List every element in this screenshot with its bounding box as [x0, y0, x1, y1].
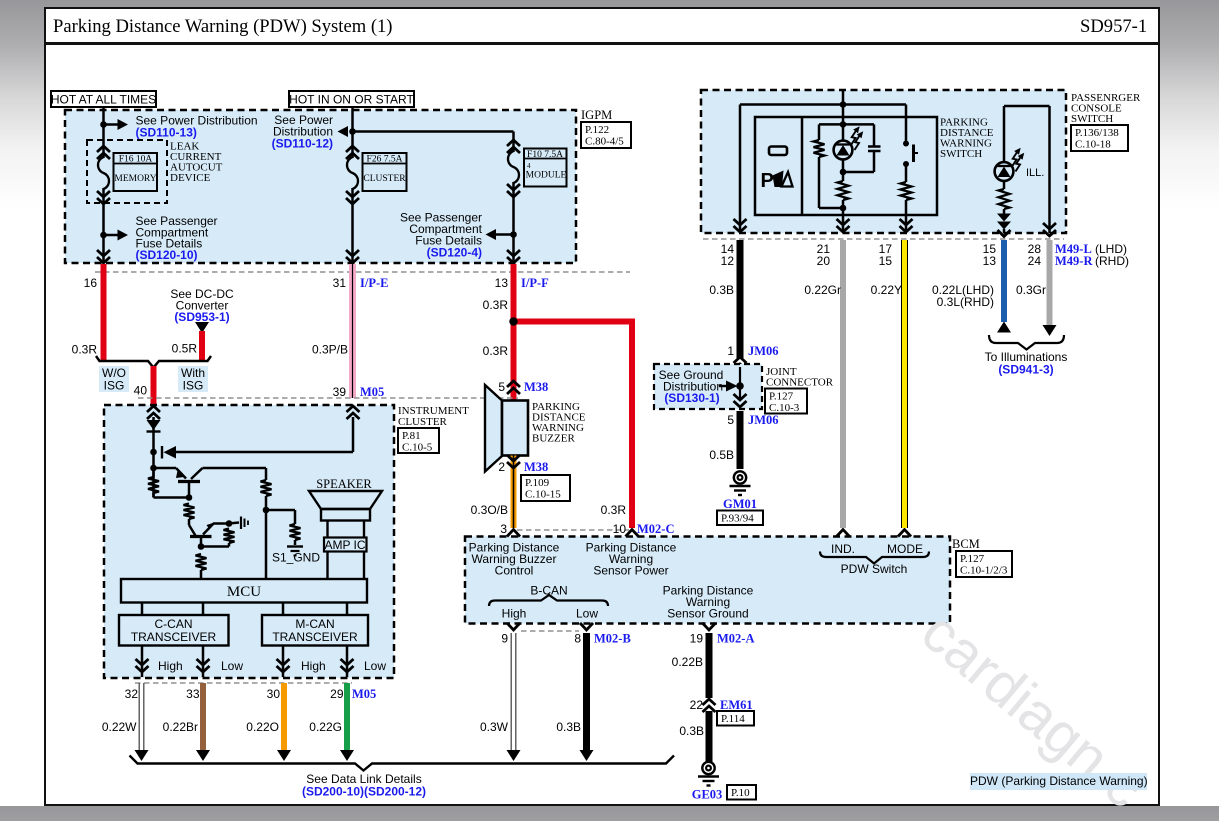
- M-CAN transceiver box: [262, 615, 368, 646]
- b-can arrowheads: [507, 750, 521, 761]
- fuse F10 7.5A MODULE: [512, 132, 515, 153]
- svg-text:(SD120-4): (SD120-4): [427, 246, 482, 260]
- svg-text:P.109: P.109: [525, 477, 550, 489]
- svg-text:MODULE: MODULE: [526, 171, 567, 181]
- svg-text:DEVICE: DEVICE: [170, 172, 211, 184]
- svg-text:GM01: GM01: [723, 497, 757, 511]
- svg-text:(SD953-1): (SD953-1): [174, 310, 229, 324]
- wire 0.22L to illuminations: [1001, 240, 1007, 322]
- node C: [186, 494, 193, 501]
- svg-text:0.22Y: 0.22Y: [871, 283, 902, 297]
- wires MCU to transceivers: [141, 603, 144, 616]
- svg-text:High: High: [301, 659, 326, 673]
- illumination branch: [1004, 105, 1050, 108]
- exit chevrons pin 28/24: [1043, 223, 1056, 229]
- svg-text:0.22O: 0.22O: [246, 720, 279, 734]
- resistor R-led bottom: [838, 181, 849, 200]
- wire 0.22W: [138, 683, 140, 750]
- svg-text:22: 22: [690, 698, 704, 712]
- wire 0.3W: [510, 633, 512, 750]
- resistor R3: [224, 529, 235, 543]
- node - passenger compartment fuse tap: [100, 232, 107, 239]
- svg-text:BCM: BCM: [952, 537, 980, 551]
- svg-text:M38: M38: [524, 460, 548, 474]
- wire 0.22Y from pin 17/15: [901, 240, 908, 528]
- svg-text:M02-C: M02-C: [637, 522, 675, 536]
- svg-text:19: 19: [690, 632, 704, 646]
- ground GM01: [734, 471, 746, 483]
- svg-text:SPEAKER: SPEAKER: [316, 477, 372, 491]
- svg-text:(SD110-13): (SD110-13): [136, 126, 197, 140]
- wire 0.22G: [344, 683, 350, 750]
- parking distance warning buzzer: [485, 385, 502, 472]
- node B: [150, 465, 157, 472]
- node - junction to I/P-F feed: [349, 128, 356, 135]
- svg-text:M05: M05: [352, 687, 376, 701]
- connector row line under IGPM: [95, 271, 630, 273]
- connector row M05 bottom: [135, 682, 352, 684]
- svg-text:(SD120-10): (SD120-10): [136, 248, 198, 262]
- wire - horizontal link to module fuse: [353, 130, 514, 133]
- svg-text:GE03: GE03: [692, 788, 723, 802]
- svg-text:32: 32: [125, 687, 139, 701]
- svg-text:IGPM: IGPM: [581, 108, 612, 122]
- svg-text:9: 9: [501, 632, 508, 646]
- svg-text:Control: Control: [495, 564, 534, 578]
- svg-text:High: High: [158, 659, 183, 673]
- LED D-ind with arrows: [834, 141, 853, 160]
- svg-text:5: 5: [727, 413, 734, 427]
- svg-text:P.114: P.114: [721, 713, 745, 725]
- node E: [198, 543, 205, 550]
- BCM entry chevrons: [507, 530, 520, 537]
- svg-text:M05: M05: [360, 385, 384, 399]
- svg-text:16: 16: [84, 276, 98, 290]
- svg-text:31: 31: [333, 276, 347, 290]
- wire S1 vertical: [265, 468, 268, 480]
- svg-text:Low: Low: [364, 659, 386, 673]
- svg-text:Low: Low: [221, 659, 243, 673]
- switch feed stub: [842, 90, 845, 105]
- svg-text:0.3P/B: 0.3P/B: [312, 343, 348, 357]
- AMP IC: [324, 538, 367, 552]
- svg-text:C.80-4/5: C.80-4/5: [585, 136, 624, 148]
- svg-text:0.3O/B: 0.3O/B: [471, 503, 508, 517]
- wire 0.3R to M02-C: [629, 319, 635, 529]
- svg-text:2: 2: [498, 460, 505, 474]
- svg-text:JM06: JM06: [748, 344, 779, 358]
- svg-text:C.10-18: C.10-18: [1075, 139, 1111, 151]
- svg-text:P.122: P.122: [585, 124, 609, 136]
- svg-text:JM06: JM06: [748, 413, 779, 427]
- CAN output wires: [141, 646, 144, 678]
- svg-text:C.10-1/2/3: C.10-1/2/3: [960, 565, 1008, 577]
- svg-text:P.93/94: P.93/94: [721, 513, 754, 525]
- wire 0.22O: [281, 683, 287, 750]
- BCM exit chevrons: [507, 623, 520, 630]
- wire 14/12 left leg: [739, 105, 742, 231]
- svg-text:13: 13: [495, 276, 509, 290]
- svg-text:0.3B: 0.3B: [679, 724, 704, 738]
- exit chevrons pin 17/15: [900, 219, 913, 225]
- svg-text:M02-A: M02-A: [717, 632, 755, 646]
- svg-text:0.3W: 0.3W: [480, 720, 509, 734]
- svg-text:I/P-F: I/P-F: [521, 276, 549, 290]
- svg-text:(SD110-12): (SD110-12): [272, 137, 333, 151]
- svg-text:CLUSTER: CLUSTER: [363, 174, 406, 184]
- svg-text:EM61: EM61: [720, 698, 753, 712]
- svg-text:0.3Gr: 0.3Gr: [1016, 283, 1046, 297]
- svg-text:SWITCH: SWITCH: [1071, 113, 1113, 125]
- svg-text:M38: M38: [524, 380, 548, 394]
- resistor R4: [196, 554, 207, 570]
- svg-text:0.3L(RHD): 0.3L(RHD): [937, 295, 994, 309]
- instrument cluster box: [104, 405, 394, 678]
- svg-text:10: 10: [613, 522, 627, 536]
- connector row M38/M02: [517, 529, 629, 531]
- svg-text:0.5R: 0.5R: [172, 342, 198, 356]
- svg-text:0.3R: 0.3R: [483, 298, 509, 312]
- data link arrowheads: [135, 750, 149, 761]
- svg-text:0.3R: 0.3R: [72, 343, 98, 357]
- svg-text:MODE: MODE: [887, 542, 923, 556]
- svg-text:Sensor Ground: Sensor Ground: [667, 607, 748, 621]
- svg-text:0.3R: 0.3R: [483, 344, 509, 358]
- double diode symbol: [997, 214, 1011, 222]
- svg-text:4: 4: [527, 162, 531, 170]
- node A: [150, 449, 157, 456]
- node led bottom: [840, 169, 847, 176]
- svg-text:P.127: P.127: [769, 391, 794, 403]
- wire 0.3Gr from illuminations: [1047, 240, 1053, 325]
- exit chevron pin 15/13: [998, 230, 1011, 237]
- W/O ISG label: [99, 366, 129, 392]
- transistor Q1: [154, 467, 177, 470]
- buzzer feed chevrons pin 5 M38: [507, 381, 520, 387]
- diode D2 pointing left: [161, 446, 163, 459]
- svg-text:AMP IC: AMP IC: [324, 538, 365, 552]
- cluster internal wiring: [152, 417, 155, 498]
- svg-text:P.136/138: P.136/138: [1075, 127, 1119, 139]
- svg-text:HOT IN ON OR START: HOT IN ON OR START: [289, 93, 414, 107]
- resistor R-ill: [999, 189, 1010, 209]
- node - see power distribution tap: [100, 121, 107, 128]
- svg-text:P.81: P.81: [402, 430, 421, 442]
- svg-text:C.10-5: C.10-5: [402, 442, 433, 454]
- svg-text:ILL.: ILL.: [1026, 167, 1044, 179]
- ground distribution box: [654, 364, 762, 409]
- EM61 connector pin 22: [703, 699, 716, 705]
- big power-distribution box (IGPM): [65, 110, 576, 263]
- svg-text:CLUSTER: CLUSTER: [398, 416, 448, 428]
- C-CAN transceiver box: [119, 615, 229, 646]
- node S1: [263, 507, 270, 514]
- svg-text:F10 7.5A: F10 7.5A: [527, 150, 563, 160]
- resistor R6: [290, 524, 301, 540]
- wire collector to S1 node: [203, 467, 267, 470]
- node D: [226, 520, 233, 527]
- svg-text:40: 40: [134, 384, 148, 398]
- wire 0.5B: [737, 411, 744, 469]
- ground GE03: [702, 762, 714, 774]
- svg-text:P.127: P.127: [960, 553, 985, 565]
- wire 0.3O/B: [511, 456, 517, 529]
- watermark: [909, 598, 1157, 821]
- BCM box: [465, 537, 950, 624]
- wire 0.3P/B from pin 31: [349, 264, 356, 398]
- svg-text:(RHD): (RHD): [1095, 254, 1129, 268]
- switch top bus wire: [740, 103, 906, 106]
- joint connector JM06: [739, 367, 741, 399]
- svg-text:0.22Br: 0.22Br: [163, 720, 198, 734]
- svg-text:C.10-15: C.10-15: [525, 489, 561, 501]
- wire below fuse F16: [102, 188, 105, 263]
- svg-text:S1_GND: S1_GND: [272, 551, 320, 565]
- ground - emitter: [240, 517, 242, 530]
- PDW footer label: [970, 773, 1147, 790]
- node - passenger compartment fuse tap right: [510, 231, 517, 238]
- leak current autocut device dashed box: [87, 140, 167, 203]
- pin 39 entry chevrons: [347, 406, 360, 412]
- svg-text:(SD200-10)(SD200-12): (SD200-10)(SD200-12): [302, 785, 426, 799]
- wire from pin 39 down-left: [352, 417, 355, 452]
- svg-text:PDW Switch: PDW Switch: [841, 562, 908, 576]
- resistor R5: [261, 480, 272, 496]
- wire 0.3B from pin 14/12: [737, 240, 744, 358]
- svg-text:Sensor Power: Sensor Power: [593, 564, 668, 578]
- svg-text:0.22W: 0.22W: [102, 720, 137, 734]
- svg-text:F26 7.5A: F26 7.5A: [367, 155, 403, 165]
- svg-text:20: 20: [817, 254, 831, 268]
- svg-text:SWITCH: SWITCH: [940, 148, 982, 160]
- svg-text:0.3B: 0.3B: [709, 283, 734, 297]
- pin 13 exit chevrons: [507, 250, 520, 256]
- pin 16 exit chevrons: [97, 250, 110, 256]
- svg-text:5: 5: [498, 380, 505, 394]
- HOT AT ALL TIMES label: [51, 91, 156, 107]
- svg-text:F16 10A: F16 10A: [119, 155, 153, 165]
- svg-text:I/P-E: I/P-E: [360, 276, 388, 290]
- svg-text:C-CAN: C-CAN: [155, 617, 193, 631]
- HOT IN ON OR START label: [289, 91, 414, 107]
- wire ILL right leg: [1048, 106, 1051, 233]
- svg-text:ISG: ISG: [183, 379, 204, 393]
- svg-text:0.22Gr: 0.22Gr: [804, 283, 841, 297]
- PDW button icon: [769, 147, 787, 156]
- resistor R-led left: [814, 140, 825, 157]
- svg-text:0.22G: 0.22G: [309, 720, 342, 734]
- svg-text:(SD941-3): (SD941-3): [998, 363, 1053, 377]
- wire 0.22B sensor ground: [706, 633, 713, 698]
- svg-text:(SD130-1): (SD130-1): [664, 391, 719, 405]
- wire 0.3R from pin 13: [511, 264, 517, 400]
- svg-text:M49-R: M49-R: [1055, 254, 1093, 268]
- pin 31 exit chevrons: [346, 250, 359, 256]
- exit chevrons pin 14/12: [734, 219, 747, 225]
- svg-text:3: 3: [500, 522, 507, 536]
- svg-text:HOT AT ALL TIMES: HOT AT ALL TIMES: [51, 93, 156, 107]
- resistor R-sw: [901, 182, 912, 200]
- wire below fuse F10: [512, 182, 515, 263]
- resistor R1 left: [152, 468, 155, 477]
- connector row M49: [703, 238, 1064, 240]
- svg-text:0.5B: 0.5B: [709, 448, 734, 462]
- svg-text:29: 29: [330, 687, 344, 701]
- svg-text:CONNECTOR: CONNECTOR: [766, 377, 834, 389]
- branch to S1_GND resistor: [266, 509, 295, 512]
- svg-text:12: 12: [721, 254, 735, 268]
- fuse F16 10A MEMORY: [97, 146, 110, 152]
- ground - S1_GND: [287, 545, 303, 547]
- MCU box: [121, 579, 367, 603]
- diode D1: [147, 420, 161, 430]
- svg-text:33: 33: [186, 687, 200, 701]
- wire from HOT IN ON OR START down: [351, 107, 354, 158]
- wire 0.5R with ISG: [199, 331, 205, 361]
- merged red wire to pin 40: [151, 366, 157, 405]
- svg-text:MEMORY: MEMORY: [114, 174, 156, 184]
- svg-text:8: 8: [574, 632, 581, 646]
- svg-text:P: P: [761, 170, 774, 192]
- svg-text:24: 24: [1028, 254, 1042, 268]
- svg-text:0.22B: 0.22B: [672, 655, 703, 669]
- svg-text:TRANSCEIVER: TRANSCEIVER: [272, 630, 358, 644]
- svg-text:MCU: MCU: [227, 584, 261, 600]
- With ISG label: [178, 366, 208, 392]
- svg-text:15: 15: [879, 254, 893, 268]
- svg-text:M-CAN: M-CAN: [295, 617, 334, 631]
- switch body box: [755, 117, 937, 215]
- node bottom middle cell: [840, 205, 847, 212]
- wire 0.3B b-can: [583, 633, 590, 750]
- wire 0.22Br: [200, 683, 206, 750]
- svg-text:39: 39: [333, 385, 347, 399]
- LED indicator circuit middle cell: [842, 105, 845, 142]
- momentary switch cell: [905, 105, 908, 142]
- svg-text:IND.: IND.: [831, 542, 855, 556]
- emitter branch to S1 ground: [213, 522, 229, 525]
- wire 0.22Gr from pin 21/20: [840, 240, 846, 528]
- svg-text:High: High: [502, 607, 527, 621]
- ISG option merge bracket: [96, 356, 211, 368]
- pin 40 entry chevrons: [147, 406, 160, 412]
- data link bus brace: [130, 756, 675, 771]
- LED ILL with arrows: [995, 162, 1014, 181]
- svg-text:ISG: ISG: [104, 379, 125, 393]
- resistor R2: [184, 504, 195, 520]
- node - junction on 0.3R feed: [514, 319, 633, 325]
- svg-text:30: 30: [267, 687, 281, 701]
- wire below fuse F26: [351, 188, 354, 263]
- transistor Q2: [189, 525, 196, 537]
- wire 0.3B to GE03: [706, 711, 713, 762]
- wire from HOT AT ALL TIMES down: [102, 107, 105, 158]
- svg-text:0.3R: 0.3R: [601, 503, 627, 517]
- wire 0.3R from pin 16: [101, 264, 107, 361]
- PDW switch assembly box: [701, 90, 1066, 233]
- buzzer output chevrons pin 2 M38: [507, 455, 520, 461]
- svg-text:1: 1: [727, 344, 734, 358]
- connector row M05/M38: [138, 397, 518, 399]
- fuse F26 7.5A CLUSTER: [346, 146, 359, 152]
- JM06 pin 5 exit chevrons: [734, 394, 747, 400]
- svg-text:13: 13: [983, 254, 997, 268]
- exit chevrons pin 21/20: [837, 219, 850, 225]
- svg-text:0.3B: 0.3B: [556, 720, 581, 734]
- svg-text:Low: Low: [576, 607, 598, 621]
- capacitor C1: [873, 124, 876, 146]
- to illuminations brace: [989, 335, 1064, 350]
- svg-text:TRANSCEIVER: TRANSCEIVER: [131, 630, 217, 644]
- svg-text:BUZZER: BUZZER: [532, 433, 575, 445]
- svg-text:P.10: P.10: [731, 787, 750, 799]
- svg-text:M02-B: M02-B: [594, 632, 631, 646]
